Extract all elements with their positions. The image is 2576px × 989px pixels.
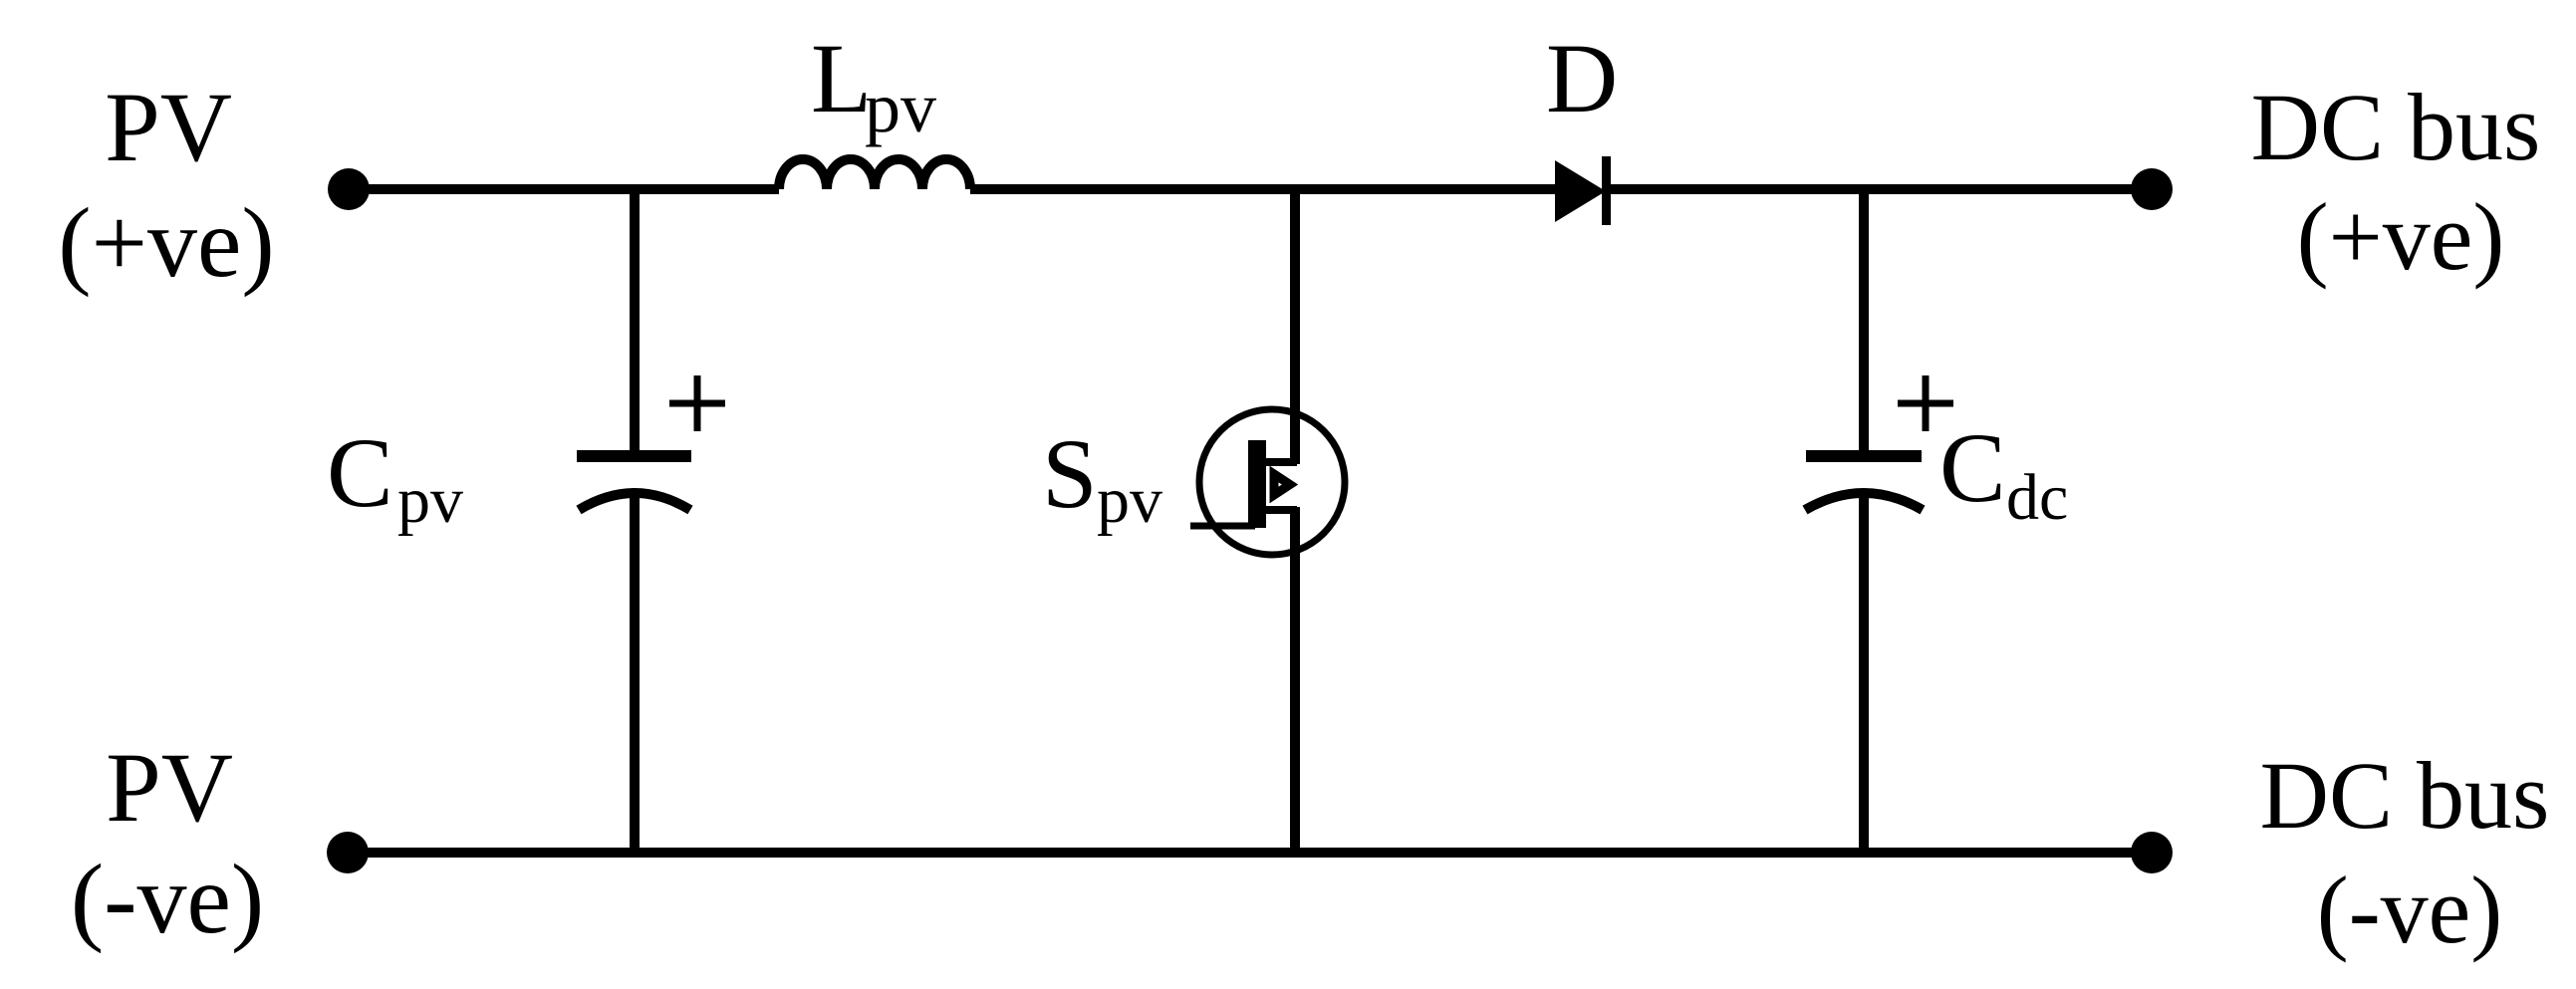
wire Cdc branch lower [1859, 492, 1869, 853]
label Spv [1042, 418, 1162, 537]
svg-text:dc: dc [2006, 461, 2068, 534]
label DC bus (+ve) [2251, 74, 2541, 290]
diode D [1555, 156, 1611, 225]
svg-text:(+ve): (+ve) [58, 187, 274, 298]
wire Cpv branch lower [630, 492, 640, 853]
svg-text:PV: PV [105, 72, 232, 182]
wire bottom: PV- dot to DC bus- dot [348, 848, 2152, 858]
wire Cdc branch upper [1859, 189, 1869, 451]
node DC bus (+ve) terminal dot [2131, 168, 2173, 210]
svg-text:(-ve): (-ve) [2317, 857, 2503, 963]
label Lpv [811, 23, 936, 147]
label Cpv [327, 417, 463, 537]
svg-text:D: D [1546, 23, 1618, 133]
plus sign Cdc polarity [1898, 375, 1953, 431]
svg-text:DC bus: DC bus [2260, 742, 2550, 849]
svg-text:S: S [1042, 418, 1098, 529]
transistor Spv MOSFET [1190, 409, 1345, 555]
svg-text:pv: pv [1097, 464, 1162, 537]
node PV (-ve) terminal dot [327, 832, 369, 873]
svg-text:(-ve): (-ve) [71, 844, 264, 954]
node PV (+ve) terminal dot [328, 168, 370, 210]
label PV (+ve) [58, 72, 274, 298]
plus sign Cpv polarity [669, 375, 725, 431]
node DC bus (-ve) terminal dot [2131, 832, 2173, 873]
wire top: diode cathode to DC bus dot [1606, 184, 2152, 194]
label DC bus (-ve) [2260, 742, 2550, 963]
svg-text:DC bus: DC bus [2251, 74, 2541, 180]
svg-text:pv: pv [865, 68, 936, 147]
wire Cpv branch upper [630, 189, 640, 451]
svg-text:(+ve): (+ve) [2297, 183, 2505, 290]
svg-text:pv: pv [397, 464, 463, 537]
wire top: PV+ dot to Cpv junction to inductor [349, 184, 779, 194]
wire Spv branch upper (drain) [1290, 189, 1300, 464]
inductor Lpv [779, 159, 970, 189]
svg-text:L: L [811, 23, 872, 133]
svg-text:PV: PV [106, 732, 233, 843]
wire top: inductor to diode anode [970, 184, 1555, 194]
label D [1546, 23, 1618, 133]
label PV (-ve) [71, 732, 264, 954]
wire Spv branch lower (source) [1290, 507, 1300, 853]
capacitor Cdc [1805, 456, 1923, 510]
label Cdc [1939, 412, 2068, 534]
svg-text:C: C [327, 417, 393, 528]
capacitor Cpv [577, 456, 691, 510]
svg-text:C: C [1939, 412, 2006, 523]
